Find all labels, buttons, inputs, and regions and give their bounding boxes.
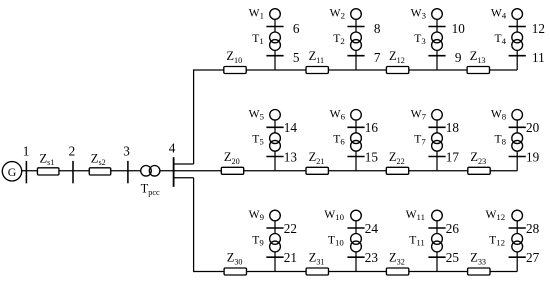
svg-text:23: 23 [365,250,379,265]
svg-text:21: 21 [284,250,297,265]
svg-text:26: 26 [446,221,460,236]
svg-text:24: 24 [365,221,379,236]
svg-text:10: 10 [452,21,466,36]
svg-text:14: 14 [284,120,298,135]
svg-text:11: 11 [532,50,545,65]
svg-text:25: 25 [446,250,460,265]
svg-text:20: 20 [526,120,540,135]
svg-text:7: 7 [374,50,381,65]
svg-text:12: 12 [532,21,545,36]
svg-text:22: 22 [284,221,297,236]
svg-text:18: 18 [446,120,460,135]
svg-text:13: 13 [284,149,298,164]
svg-text:27: 27 [526,250,540,265]
svg-text:4: 4 [169,141,176,156]
svg-text:1: 1 [23,144,30,159]
svg-text:3: 3 [123,144,130,159]
svg-text:6: 6 [293,21,300,36]
svg-text:8: 8 [374,21,381,36]
svg-text:2: 2 [69,144,76,159]
svg-text:19: 19 [526,149,540,164]
svg-text:G: G [8,165,17,179]
svg-text:9: 9 [455,50,462,65]
svg-text:5: 5 [293,50,300,65]
svg-text:16: 16 [365,120,379,135]
svg-text:17: 17 [446,149,460,164]
svg-text:15: 15 [365,149,379,164]
svg-text:28: 28 [526,221,540,236]
